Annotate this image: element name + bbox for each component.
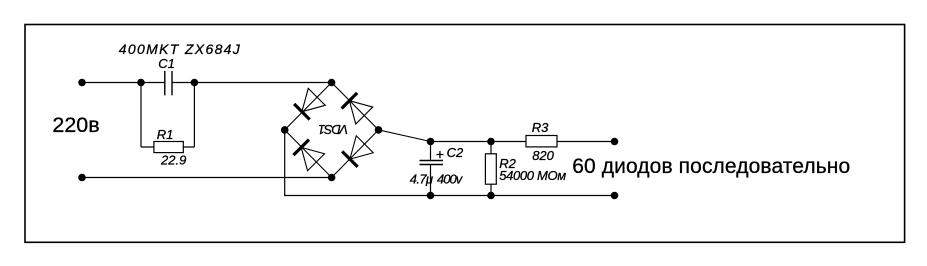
svg-text:22.9: 22.9 — [160, 153, 186, 168]
svg-text:54000 МОм: 54000 МОм — [499, 168, 566, 183]
resistor R1 — [154, 142, 183, 153]
capacitor C2 — [420, 142, 444, 196]
diode VD2 top-right — [341, 92, 373, 124]
resistor R2 — [485, 142, 496, 196]
wire top rail right of C1 to bridge top — [172, 82, 332, 84]
wire DC minus: bridge left vertex down and right — [285, 130, 615, 196]
svg-text:R1: R1 — [157, 127, 174, 142]
wire top rail left — [82, 82, 165, 84]
node dot bridge right vertex — [375, 126, 383, 134]
node dot output plus — [611, 138, 619, 146]
svg-text:820: 820 — [532, 148, 554, 163]
node dot bridge bottom vertex — [328, 174, 336, 182]
node dot C1 right junction — [191, 79, 199, 87]
node dot output minus — [611, 192, 619, 200]
svg-text:220в: 220в — [52, 113, 99, 137]
svg-text:VDS1: VDS1 — [318, 122, 348, 137]
node dot left bottom input — [78, 174, 86, 182]
diode VD4 bottom-right — [341, 136, 373, 168]
node dot bridge left vertex — [281, 126, 289, 134]
svg-text:C2: C2 — [447, 145, 464, 160]
svg-text:R3: R3 — [532, 120, 549, 135]
wire R1 branch bottom — [141, 146, 194, 148]
wire R1 branch left — [140, 83, 142, 148]
wire bridge diamond edges — [285, 83, 379, 178]
node dot bridge top vertex — [328, 79, 336, 87]
svg-text:+: + — [436, 146, 444, 162]
svg-text:4.7μ: 4.7μ — [410, 171, 433, 186]
wire plus rail to R3 — [431, 141, 527, 143]
capacitor C1 — [165, 71, 172, 95]
wire bottom AC rail — [82, 177, 332, 179]
resistor R3 — [526, 136, 557, 147]
node dot R2 bottom — [487, 192, 495, 200]
node dot C1 left junction — [137, 79, 145, 87]
diode VD3 bottom-left — [293, 139, 325, 171]
svg-text:60 диодов последовательно: 60 диодов последовательно — [572, 155, 850, 178]
svg-text:C1: C1 — [158, 56, 175, 71]
node dot C2 bottom — [427, 192, 435, 200]
node dot R2 top — [487, 138, 495, 146]
wire DC plus slant from bridge right vertex — [379, 130, 431, 142]
node dot C2 top — [427, 138, 435, 146]
diode VD1 top-left — [293, 88, 325, 120]
node dot left top input — [78, 79, 86, 87]
wire R1 branch right — [193, 83, 195, 148]
wire R3 to output — [557, 141, 615, 143]
svg-text:400v: 400v — [437, 172, 464, 187]
